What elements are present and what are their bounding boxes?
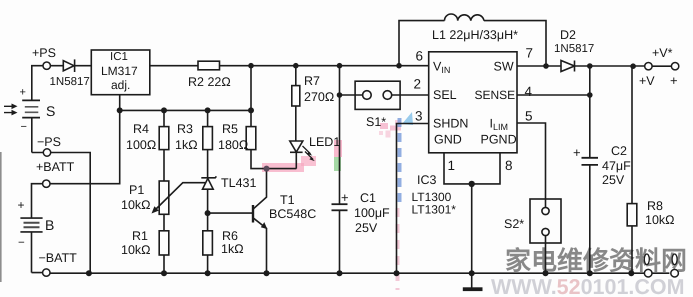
svg-text:7: 7 [526,46,534,61]
svg-text:SENSE: SENSE [475,88,516,102]
svg-text:100Ω: 100Ω [126,138,156,152]
svg-text:R7: R7 [304,74,320,88]
svg-text:LM317: LM317 [101,64,138,78]
svg-text:4: 4 [525,84,533,99]
svg-text:adj.: adj. [111,78,130,92]
svg-text:家电维修资料网: 家电维修资料网 [505,246,687,276]
svg-text:100μF: 100μF [354,206,390,220]
svg-text:GND: GND [434,133,462,147]
svg-text:R2 22Ω: R2 22Ω [188,75,231,89]
svg-text:R3: R3 [177,122,193,136]
svg-text:R1: R1 [132,229,148,243]
svg-text:B: B [45,217,54,233]
svg-text:D2: D2 [560,28,576,42]
svg-text:+PS: +PS [32,46,56,60]
svg-text:PGND: PGND [481,133,517,147]
svg-text:R8: R8 [647,199,663,213]
svg-text:R6: R6 [222,229,238,243]
svg-text:+: + [20,87,26,99]
svg-text:IC3: IC3 [417,173,437,187]
svg-text:8: 8 [505,158,513,173]
svg-text:25V: 25V [355,221,378,235]
svg-text:P1: P1 [129,183,144,197]
svg-text:2: 2 [414,77,422,92]
svg-text:IC1: IC1 [110,51,128,63]
svg-text:SW: SW [494,60,514,74]
svg-text:47μF: 47μF [602,159,631,173]
svg-text:R5: R5 [222,122,238,136]
svg-text:BC548C: BC548C [269,207,316,221]
svg-text:T1: T1 [280,193,295,207]
svg-text:WWW.520101.COM: WWW.520101.COM [491,275,685,297]
svg-text:270Ω: 270Ω [304,90,334,104]
svg-text:C1: C1 [360,191,376,205]
svg-text:−BATT: −BATT [39,251,78,265]
svg-text:6: 6 [416,49,424,64]
svg-text:LT1301*: LT1301* [412,203,457,217]
svg-text:+V: +V [639,74,655,88]
svg-text:L1 22μH/33μH*: L1 22μH/33μH* [432,28,518,42]
svg-text:+V*: +V* [652,46,673,60]
svg-text:1N5817: 1N5817 [554,43,594,55]
svg-text:25V: 25V [602,173,625,187]
svg-text:TL431: TL431 [221,176,256,190]
svg-text:S: S [46,103,55,119]
svg-text:LED1: LED1 [309,135,340,149]
svg-text:−PS: −PS [37,135,61,149]
svg-text:+BATT: +BATT [36,160,75,174]
svg-text:S1*: S1* [366,115,386,129]
svg-text:+: + [18,198,25,212]
svg-text:1N5817: 1N5817 [50,76,90,88]
svg-text:180Ω: 180Ω [218,138,248,152]
svg-text:1: 1 [448,158,456,173]
svg-text:+: + [573,145,581,160]
svg-text:−: − [18,237,25,249]
svg-text:1kΩ: 1kΩ [175,138,198,152]
svg-text:+: + [341,190,349,205]
svg-text:5: 5 [525,109,533,124]
svg-text:−: − [21,121,27,133]
svg-text:10kΩ: 10kΩ [645,213,675,227]
svg-text:C2: C2 [611,144,627,158]
svg-text:R4: R4 [133,122,149,136]
svg-text:+: + [670,73,678,88]
svg-text:SHDN: SHDN [433,117,468,131]
svg-text:SEL: SEL [433,88,457,102]
svg-text:10kΩ: 10kΩ [121,243,151,257]
svg-text:1kΩ: 1kΩ [221,242,244,256]
svg-text:3: 3 [415,109,423,124]
svg-text:S2*: S2* [504,217,524,231]
svg-text:10kΩ: 10kΩ [121,198,151,212]
